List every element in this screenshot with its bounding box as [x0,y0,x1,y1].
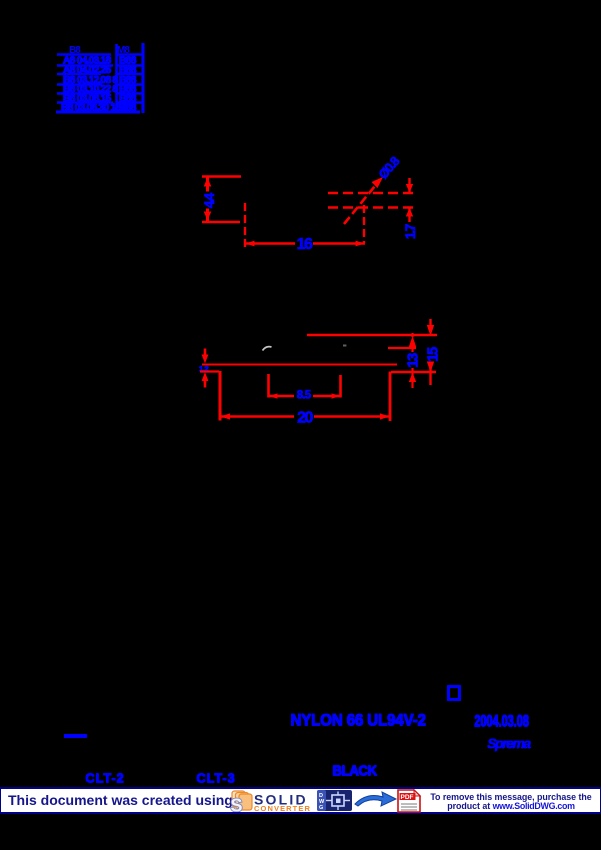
dimension line 1.7 vertical [408,178,410,193]
page stack front [239,794,252,810]
solid converter logo [229,790,409,812]
arrowhead x412 upper [409,336,416,347]
svg-text:8.5: 8.5 [297,387,312,401]
date text 2004.03.08 [474,712,529,731]
right column row line 5 [116,92,143,95]
svg-text:15: 15 [425,347,442,362]
svg-text:20: 20 [297,409,313,426]
extension line bottom-left [202,221,240,223]
dim line x412 mid stem [411,347,413,352]
table column line right [141,43,144,113]
svg-text:13: 13 [405,353,422,368]
dimension line 16 [245,242,295,244]
arrow icon [353,790,399,812]
arrowhead right 8.5 [332,393,341,398]
blue dash mark [64,734,87,738]
extension line x390 [389,372,392,422]
svg-text:B88: B88 [119,102,137,114]
right column row line 4 [116,83,143,86]
banner text right [422,793,600,811]
dim line x412 lower stem [411,368,413,388]
extension line left dashed [244,203,246,248]
table row line 4 [57,83,102,86]
arrowhead x430 lower [427,362,434,373]
svg-text:Ø0.8: Ø0.8 [375,154,402,182]
feature line upper dashed [328,192,417,194]
material text NYLON 66 UL94V-2 [290,711,425,730]
arrowhead up [204,178,212,187]
dim line x430 upper stem [429,319,431,327]
right column row line 2 [116,64,143,67]
extension line top-left [202,175,241,177]
table row line 5 [57,92,110,95]
svg-text:1.7: 1.7 [402,224,418,240]
grey dot mark [343,345,346,347]
svg-text:16: 16 [297,236,313,253]
arrowhead down [204,212,212,221]
svg-text:CONVERTER: CONVERTER [254,804,311,812]
arrowhead x430 upper [427,325,434,336]
arrowhead up to lower line [406,208,413,217]
extension line x220 [219,371,222,421]
extension line x268.5 [267,374,270,398]
tofu box symbol [447,685,461,701]
left small dim arrow up [202,372,209,381]
mid edge line long [202,364,397,366]
table row line 6 [57,101,113,104]
right column row line 6 [116,101,143,104]
table row line 2 [57,64,113,67]
leader line diagonal [344,181,379,224]
label CLT-2 [85,770,124,785]
edge line y372 [391,371,436,373]
left small dim upper stem [204,349,207,359]
arrowhead x412 lower [409,373,416,383]
left small dim lower stem [204,377,207,388]
right column row line 3 [116,73,143,75]
dim line x430 lower stem [429,362,431,385]
dwg icon [317,790,353,812]
svg-text:G: G [319,805,323,811]
arrowhead left 8.5 [269,393,278,398]
svg-text:4.4: 4.4 [201,193,217,209]
white arc mark [263,347,272,351]
page stack middle [236,793,249,809]
dim line x412 upper stem [411,333,413,337]
pdf icon [396,789,422,813]
feature line lower dashed [328,206,417,208]
arrowhead right 20 [380,413,390,419]
banner text left [8,792,233,808]
table column line left [115,44,118,113]
page stack back [232,791,245,807]
arrowhead left 20 [221,413,231,419]
table row line 3 [57,73,101,75]
left small dim arrow down [202,355,209,364]
label CLT-3 [196,770,235,785]
svg-text:PDF: PDF [401,794,414,801]
arrowhead left [246,241,255,247]
extension line x340.5 [339,375,342,398]
table bottom line [56,111,140,114]
dimension line 20 [220,415,294,417]
extension line right dashed [363,205,365,243]
short edge line y348 [388,347,416,349]
right column row line 1 [116,53,143,56]
dimension line 8.5 [269,395,295,397]
arrowhead right [356,241,365,247]
color text BLACK [332,763,376,779]
svg-text:S: S [231,796,243,813]
table row line 1 [57,53,111,56]
left short line y371.5 [200,370,219,372]
arrowhead down to upper line [406,184,413,193]
dimension line 4.4 vertical [206,177,209,192]
top edge line [307,334,437,336]
leader arrowhead [372,177,384,188]
signature [487,735,529,751]
